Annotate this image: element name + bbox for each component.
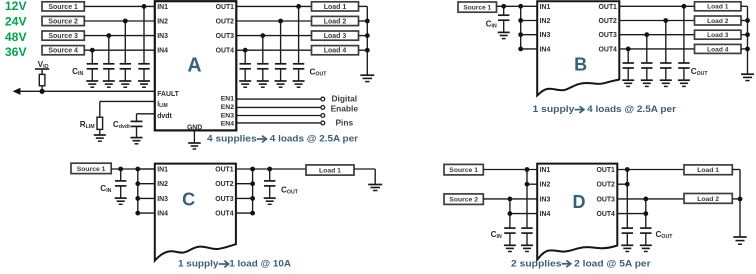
svg-text:Load 2: Load 2 [707,18,729,25]
svg-text:24V: 24V [5,15,28,29]
junction dot Load 2 return (D) [738,197,743,202]
capacitor COUT bank unit 1 (A) with ground [298,6,300,63]
wire bus to IN1 (C) [138,168,155,170]
svg-text:OUT4: OUT4 [599,46,618,53]
wire Load 2 return (A) [359,20,368,22]
svg-text:Source 3: Source 3 [48,33,78,40]
ground Cdvdt [131,137,143,139]
svg-text:4 supplies: 4 supplies [207,133,257,144]
capacitor CIN bank unit 1 (A) with ground [143,6,145,63]
svg-text:IN1: IN1 [157,4,168,11]
junction dot load return 3 (A) [365,33,370,38]
svg-text:4 loads @ 2.5A per: 4 loads @ 2.5A per [587,103,676,114]
svg-text:Source 2: Source 2 [48,19,78,26]
junction dot OUT4 (D) [643,211,648,216]
capacitor COUT bank unit 2 (A) with ground [280,21,282,64]
junction dot OUT2 (C) [250,181,255,186]
output bus 1 (D) [626,170,628,229]
wire FAULT to host (arrow left) [19,90,155,92]
svg-text:OUT3: OUT3 [597,196,616,203]
svg-text:IN1: IN1 [157,166,168,173]
junction dot IN1 (B) [518,4,523,9]
capacitor COUT bank unit 3 (A) with ground [262,36,264,64]
load block Load 1 (D) [684,165,732,175]
wire Source 2 to IN2 (A) [84,20,155,22]
terminal circle EN2 [321,106,325,110]
junction dot IN3 bus (D) [508,197,513,202]
wire OUT1 to Load 1 (B) [619,5,694,7]
svg-text:OUT3: OUT3 [216,33,235,40]
svg-text:OUT4: OUT4 [216,48,235,55]
capacitor COUT bank unit 4 (A) with ground [244,50,246,64]
wire Load 1 return (D) [732,169,740,171]
load block Load 2 (B) [695,16,742,25]
source block Source 2 (A) [42,16,84,25]
load block Load 1 (B) [695,2,742,11]
source block Source 3 (A) [42,31,84,40]
load block Load 3 (B) [695,30,742,39]
svg-text:OUT4: OUT4 [597,211,616,218]
wire OUT3 to bus (C) [236,197,253,199]
svg-text:B: B [574,54,587,74]
wire bus1 to IN2 (D) [527,183,537,185]
capacitor CIN bank unit 2 (A) with ground [124,21,126,64]
junction dot OUT1 (D) [625,167,630,172]
wire Source 1 to bus (B) [497,5,521,7]
junction dot IN2 (C) [135,181,140,186]
svg-text:IN4: IN4 [540,211,551,218]
op IC U1 outline (C) [155,164,236,261]
terminal circle EN3 [321,114,325,118]
terminal circle EN4 [321,121,325,125]
svg-text:Load 1: Load 1 [324,4,347,11]
junction dot COUT (C) [267,167,272,172]
resistor RLIM [97,117,103,129]
wire OUT4 to Load 4 (A) [236,49,311,51]
capacitor CIN unit 1 (D) with ground [509,227,511,229]
svg-text:IN4: IN4 [540,46,551,53]
junction dot IN4 bus (A) [90,48,95,53]
svg-text:Enable: Enable [331,104,359,114]
svg-text:IN4: IN4 [157,211,168,218]
svg-text:IN2: IN2 [540,18,551,25]
svg-text:A: A [187,55,201,77]
svg-text:Source 1: Source 1 [48,4,78,11]
wire bus to IN4 (C) [138,212,155,214]
junction dot IN1 bus (D) [525,167,530,172]
op IC U1 outline (B) [537,1,619,95]
load return bus (A) [366,6,368,74]
svg-text:OUT3: OUT3 [599,32,618,39]
svg-text:OUT1: OUT1 [597,167,616,174]
ground load return (A) [360,74,374,76]
capacitor COUT unit 2 (D) with ground [645,227,647,229]
junction dot OUT4 (B) [626,47,631,52]
junction dot IN3 bus (A) [106,33,111,38]
junction dot IN1 bus (A) [142,4,147,9]
svg-text:EN1: EN1 [221,96,234,103]
junction dot IN3 (B) [518,32,523,37]
junction dot OUT3 (C) [250,196,255,201]
source block Source 2 (D) [444,194,483,205]
wire OUT4 to Load 4 (B) [619,48,694,50]
svg-text:2 load @ 5A per: 2 load @ 5A per [574,257,651,268]
svg-text:IN3: IN3 [157,196,168,203]
wire OUT2 to bus1 (D) [617,183,627,185]
ground GND pin (A) [193,130,195,142]
output bus 2 (D) [645,199,647,228]
load block Load 4 (B) [695,44,742,53]
svg-text:Load 1: Load 1 [697,167,719,174]
source block Source 1 (A) [42,2,84,11]
junction dot load return 4 (A) [365,48,370,53]
capacitor CIN bank unit 4 (A) with ground [91,50,93,64]
output bus (C) [252,169,254,213]
wire EN4 (A) [236,122,320,124]
capacitor CIN (C) with ground [120,169,122,181]
svg-text:Load 3: Load 3 [324,33,347,40]
junction dot IN2 (D) [525,182,530,187]
wire OUT4 to bus (C) [236,212,253,214]
load block Load 1 (A) [312,2,359,11]
svg-text:ILIM: ILIM [157,101,168,109]
terminal circle EN1 [321,97,325,101]
capacitor CIN bank unit 3 (A) with ground [108,36,110,64]
wire Source 1 to IN bus (C) [111,168,155,170]
junction dot load return 4 (B) [745,47,750,52]
load block Load 2 (A) [312,16,359,25]
wire Source 1 to IN1 (D) [483,169,537,171]
source block Source 1 (B) [458,2,497,12]
wire EN3 (A) [236,115,320,117]
svg-text:EN3: EN3 [221,112,234,119]
junction dot OUT2 (B) [663,18,668,23]
wire Load 1 return (B) [741,5,748,7]
wire ILIM pin (A) [100,100,155,102]
svg-text:EN4: EN4 [221,121,234,128]
wire OUT2 to Load 2 (A) [236,20,311,22]
svg-text:Load 4: Load 4 [707,46,729,53]
rail symbol VIO [35,68,49,70]
svg-text:1 load @ 10A: 1 load @ 10A [229,258,291,269]
svg-text:1 supply: 1 supply [533,103,576,114]
wire Load 4 return (A) [359,49,368,51]
wire Load 2 return (D) [732,198,740,200]
svg-text:IN3: IN3 [540,32,551,39]
capacitor COUT bank unit 4 (B) with ground [627,49,629,63]
wire OUT1 to Load 1 (A) [236,5,311,7]
resistor pull-up to VIO [39,74,45,85]
wire bus to IN2 (B) [521,20,538,22]
svg-text:1 supply: 1 supply [178,258,219,269]
ground load return (C) [368,184,382,186]
wire OUT3 to Load 3 (A) [236,35,311,37]
capacitor CIN (B) with ground [503,6,505,15]
wire OUT2 to bus (C) [236,183,253,185]
junction dot OUT2 (A) [278,19,283,24]
wire OUT4 to bus2 (D) [617,213,646,215]
wire Source 1 to IN1 (A) [84,5,155,7]
input bus 1 (D) [526,170,528,229]
input bus (C) [137,169,139,213]
svg-text:IN1: IN1 [540,167,551,174]
svg-text:EN2: EN2 [221,104,234,111]
capacitor Cdvdt [131,120,143,122]
junction dot IN2 bus (A) [123,19,128,24]
svg-text:IN1: IN1 [540,4,551,11]
capacitor COUT bank unit 2 (B) with ground [665,21,667,64]
svg-text:Source 2: Source 2 [449,197,478,204]
svg-text:Load 4: Load 4 [324,48,347,55]
junction dot IN3 (C) [135,196,140,201]
junction dot load return 2 (B) [745,18,750,23]
svg-text:Source 1: Source 1 [463,4,491,11]
svg-text:Load 2: Load 2 [324,19,347,26]
svg-text:Source 1: Source 1 [77,166,106,173]
ground load return (B) [741,73,754,75]
wire OUT1 to Load 1 (C) [236,168,306,170]
junction dot OUT1 (A) [296,4,301,9]
svg-text:OUT4: OUT4 [215,211,234,218]
op IC U1 outline (D) [537,164,617,260]
junction dot IN2 (B) [518,18,523,23]
svg-text:OUT1: OUT1 [599,4,618,11]
ground RLIM [99,129,101,134]
junction dot OUT4 (A) [243,48,248,53]
load block Load 1 (C) [306,165,354,175]
svg-text:OUT2: OUT2 [216,18,235,25]
junction dot OUT4 (C) [250,211,255,216]
junction dot OUT1 (C) [250,167,255,172]
svg-text:IN3: IN3 [540,196,551,203]
junction dot VIO/FAULT [40,89,45,94]
wire bus to IN3 (B) [521,34,538,36]
junction dot OUT3 (A) [260,33,265,38]
junction dot CIN (B) [501,4,506,9]
wire OUT3 to Load 2 (D) [617,198,684,200]
input bus 2 (D) [509,199,511,228]
junction dot load return 3 (B) [745,32,750,37]
svg-text:Source 4: Source 4 [48,48,78,55]
wire bus to IN4 (B) [521,48,538,50]
junction dot CIN (C) [118,167,123,172]
source block Source 1 (D) [444,164,483,175]
svg-text:Load 3: Load 3 [707,32,729,39]
svg-text:C: C [182,190,195,210]
svg-text:IN2: IN2 [157,181,168,188]
svg-text:D: D [573,192,586,212]
svg-text:Pins: Pins [335,118,353,128]
svg-text:Load 1: Load 1 [707,4,729,11]
wire Source 3 to IN3 (A) [84,35,155,37]
junction dot IN4 (B) [518,47,523,52]
junction dot OUT2 (D) [625,182,630,187]
wire Load 3 return (B) [741,34,748,36]
ground load return (D) [733,236,747,238]
wire Load 1 return (C) [354,168,375,170]
wire Source 2 to IN3 (D) [483,198,537,200]
svg-text:Load 2: Load 2 [697,196,719,203]
svg-text:OUT2: OUT2 [597,182,616,189]
svg-text:OUT1: OUT1 [215,166,234,173]
load return bus (B) [747,6,749,74]
svg-text:OUT1: OUT1 [216,4,235,11]
svg-text:IN4: IN4 [157,48,168,55]
svg-text:IN2: IN2 [540,182,551,189]
svg-text:IN3: IN3 [157,33,168,40]
svg-text:IN2: IN2 [157,18,168,25]
wire Load 1 return (A) [359,5,368,7]
wire dvdt pin (A) [137,113,155,115]
op IC U1 outline (A) [155,1,237,130]
svg-text:48V: 48V [5,30,28,44]
load block Load 4 (A) [312,46,359,55]
svg-text:OUT3: OUT3 [215,196,234,203]
junction dot OUT1 (B) [682,4,687,9]
capacitor COUT bank unit 1 (B) with ground [683,6,685,63]
capacitor CIN unit 2 (D) with ground [526,227,528,229]
capacitor COUT unit 1 (D) with ground [626,227,628,229]
svg-text:Digital: Digital [332,94,358,104]
svg-text:OUT2: OUT2 [215,181,234,188]
capacitor COUT (C) with ground [269,169,271,181]
svg-text:dvdt: dvdt [157,113,172,120]
input bus (B) [520,6,522,49]
svg-text:2 supplies: 2 supplies [511,257,562,268]
junction dot load return 2 (A) [365,19,370,24]
svg-text:OUT2: OUT2 [599,18,618,25]
junction dot OUT3 (D) [643,197,648,202]
junction dot IN4 (D) [508,211,513,216]
wire OUT2 to Load 2 (B) [619,20,694,22]
wire EN2 (A) [236,106,320,108]
svg-text:FAULT: FAULT [157,91,179,98]
wire EN1 (A) [236,98,320,100]
load block Load 2 (D) [684,194,732,204]
wire Load 2 return (B) [741,20,748,22]
load block Load 3 (A) [312,31,359,40]
junction dot IN4 (C) [135,211,140,216]
source block Source 1 (C) [71,163,111,173]
svg-text:4 loads @ 2.5A per: 4 loads @ 2.5A per [270,133,359,144]
source block Source 4 (A) [42,46,84,55]
wire bus to IN1 (B) [521,5,538,7]
wire bus to IN2 (C) [138,183,155,185]
svg-text:36V: 36V [5,45,28,59]
wire bus2 to IN4 (D) [510,213,537,215]
wire OUT3 to Load 3 (B) [619,34,694,36]
svg-text:Load 1: Load 1 [319,167,341,174]
wire Load 4 return (B) [741,48,748,50]
wire OUT1 to Load 1 (D) [617,169,684,171]
junction dot OUT3 (B) [644,32,649,37]
wire Load 3 return (A) [359,35,368,37]
wire Source 4 to IN4 (A) [84,49,155,51]
capacitor COUT bank unit 3 (B) with ground [646,35,648,63]
junction dot IN1 (C) [135,167,140,172]
svg-text:Source 1: Source 1 [449,167,478,174]
wire bus to IN3 (C) [138,197,155,199]
svg-text:12V: 12V [5,0,28,13]
